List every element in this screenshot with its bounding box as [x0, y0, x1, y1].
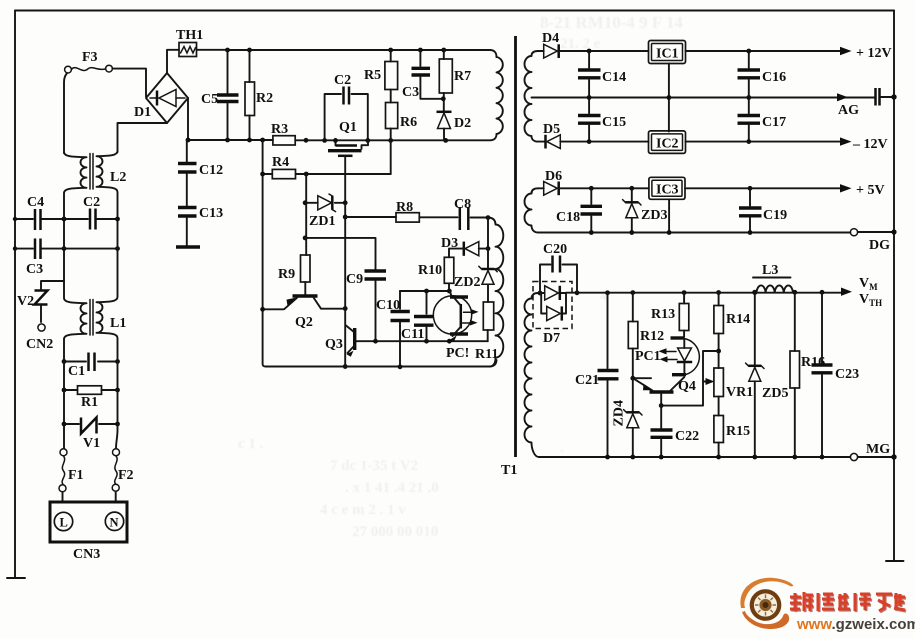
svg-text:VR1: VR1 [726, 385, 753, 400]
wire node ZD1-left column [303, 174, 308, 255]
svg-text:IC1: IC1 [656, 47, 679, 62]
resistor R13 [651, 293, 689, 337]
resistor R16 [790, 292, 825, 457]
transformer T1 core [514, 36, 517, 457]
gate coupling cap C2 loop [325, 73, 368, 140]
svg-text:IC3: IC3 [656, 183, 679, 198]
svg-text:C23: C23 [835, 367, 859, 382]
svg-text:F2: F2 [118, 468, 134, 483]
border frame: right earth line with end tick [886, 11, 904, 562]
resistor R3 (inline in rail) [271, 122, 295, 145]
watermark logo: red Chinese title (simulated glyphs) [791, 593, 906, 612]
resistor R1 row [62, 362, 120, 411]
svg-text:C15: C15 [602, 115, 626, 130]
common-mode choke L2 [64, 151, 126, 219]
zener ZD2 [454, 266, 497, 302]
rectifier diode D6 [538, 169, 649, 195]
bridge rectifier D1 [134, 73, 188, 123]
top B+ rail from TH1 to transformer primary [197, 48, 497, 57]
svg-text:.: . [560, 440, 564, 456]
border frame: top edge [15, 10, 894, 12]
secondary winding 2 (+5V) [525, 188, 539, 232]
svg-text:R13: R13 [651, 307, 675, 322]
svg-text:R15: R15 [726, 424, 750, 439]
capacitor C15 [578, 98, 626, 142]
svg-text:D7: D7 [543, 331, 560, 346]
svg-text:R6: R6 [400, 115, 417, 130]
snubber cap C3 [402, 50, 443, 100]
capacitor C10 [376, 291, 410, 367]
regulator IC3 [649, 177, 685, 199]
capacitor C21 [575, 293, 619, 457]
svg-text:C17: C17 [762, 115, 786, 130]
svg-text:C9: C9 [346, 272, 363, 287]
svg-text:27 000 00 010: 27 000 00 010 [352, 524, 438, 540]
zener ZD5 [746, 292, 789, 457]
svg-text:PC!: PC! [446, 346, 469, 361]
svg-text:F1: F1 [68, 468, 84, 483]
svg-text:C16: C16 [762, 70, 786, 85]
optocoupler PC1 LED side [635, 338, 699, 375]
svg-text:VTH: VTH [859, 292, 882, 308]
wire C9 branch [305, 238, 375, 269]
capacitor C2 (line filter) [83, 195, 100, 230]
capacitor C17 [738, 98, 787, 142]
svg-text:7 dc 1-35 t V2: 7 dc 1-35 t V2 [330, 458, 418, 474]
resistor R4 row [260, 155, 391, 179]
svg-text:TH1: TH1 [176, 28, 203, 43]
filter cap C13 [176, 206, 223, 247]
resistor R9 [278, 255, 310, 294]
resistor R2 [245, 50, 273, 140]
svg-text:. x 1 41 .4 21 .0: . x 1 41 .4 21 .0 [345, 480, 439, 496]
resistor R10 [418, 257, 454, 291]
svg-text:R7: R7 [454, 69, 471, 84]
snubber diode D2 [437, 112, 472, 141]
svg-text:c 1 .: c 1 . [238, 436, 264, 452]
svg-text:V1: V1 [83, 436, 100, 451]
wire IC1 to IC2 [668, 64, 670, 132]
svg-text:+ 12V: + 12V [856, 46, 892, 61]
svg-text:C3: C3 [26, 262, 43, 277]
wire IC3 to DG rail [668, 199, 670, 232]
svg-text:C1: C1 [68, 364, 85, 379]
+5V rail after IC3 [589, 183, 885, 198]
svg-text:C5: C5 [201, 92, 218, 107]
common-mode choke L1 [64, 249, 126, 362]
source column wire Q1 to bottom rail [343, 203, 348, 369]
svg-text:D6: D6 [545, 169, 562, 184]
svg-text:D1: D1 [134, 105, 151, 120]
svg-text:ZD3: ZD3 [641, 208, 667, 223]
zener ZD3 [623, 188, 668, 232]
svg-text:D5: D5 [543, 122, 560, 137]
svg-text:L1: L1 [110, 316, 126, 331]
fuse F2 [112, 424, 133, 491]
svg-text:Q4: Q4 [678, 379, 696, 394]
capacitor C3 (line filter) [26, 239, 43, 278]
diode D3 [441, 236, 488, 257]
svg-text:CN2: CN2 [26, 337, 53, 352]
svg-text:R9: R9 [278, 267, 295, 282]
svg-text:C2: C2 [334, 73, 351, 88]
faint bleed-through text from page back [238, 13, 683, 540]
transistor Q3 [325, 326, 488, 357]
svg-text:R3: R3 [271, 122, 288, 137]
transistor Q2 [260, 296, 347, 330]
svg-text:C10: C10 [376, 298, 400, 313]
svg-text:– 12V: – 12V [852, 137, 888, 152]
svg-text:R14: R14 [726, 312, 750, 327]
capacitor C23 [812, 292, 860, 457]
resistor R6 [386, 90, 418, 141]
capacitor C5 [201, 50, 239, 140]
X-cap C4 row wire [13, 217, 120, 222]
capacitor C4 [27, 195, 44, 230]
svg-text:C4: C4 [27, 195, 44, 210]
rectifier diode D4 [538, 31, 649, 58]
MG rail [539, 442, 897, 461]
svg-text:V2: V2 [17, 294, 34, 309]
DG rail [538, 229, 897, 253]
filter cap C12 [178, 140, 223, 206]
svg-text:C21: C21 [575, 373, 599, 388]
zener ZD1 [303, 194, 348, 229]
svg-text:L: L [60, 516, 68, 530]
svg-text:C3: C3 [402, 85, 419, 100]
capacitor C22 [651, 406, 700, 457]
svg-text:C20: C20 [543, 242, 567, 257]
capacitor C11 [401, 291, 434, 342]
svg-text:R12: R12 [640, 329, 664, 344]
svg-text:R11: R11 [475, 347, 498, 362]
rectifier diode D5 [538, 122, 649, 149]
svg-text:T1: T1 [501, 463, 517, 478]
capacitor C14 [578, 51, 626, 98]
svg-text:D3: D3 [441, 236, 458, 251]
snubber resistor R7 [439, 50, 471, 112]
feedback row R8 [345, 200, 457, 222]
svg-text:PC1: PC1 [635, 349, 661, 364]
svg-text:+ 5V: + 5V [856, 183, 885, 198]
svg-text:IC2: IC2 [656, 137, 679, 152]
wire F3 left down to choke L2 [64, 73, 67, 153]
svg-text:ZD1: ZD1 [309, 214, 335, 229]
capacitor C20 loop [540, 242, 577, 293]
svg-text:R5: R5 [364, 68, 381, 83]
resistor R14 [714, 293, 750, 369]
svg-text:8-21 RM10-4 9 F 14: 8-21 RM10-4 9 F 14 [540, 13, 683, 32]
svg-text:C13: C13 [199, 206, 223, 221]
resistor R15 [714, 397, 750, 458]
wire D1 right corner down to DC mid rail [187, 98, 189, 140]
+12V rail after IC1 [587, 46, 892, 61]
capacitor C18 [556, 188, 602, 232]
capacitor C1 row [62, 353, 120, 380]
control ground bottom rail [266, 360, 497, 369]
svg-text:C19: C19 [763, 208, 787, 223]
fuse F3 [65, 50, 113, 73]
svg-text:R10: R10 [418, 263, 442, 278]
svg-text:R2: R2 [256, 91, 273, 106]
svg-text:C8: C8 [454, 197, 471, 212]
zener ZD4 [612, 378, 643, 457]
transistor Q4 [630, 376, 695, 408]
svg-text:C14: C14 [602, 70, 626, 85]
svg-text:C18: C18 [556, 210, 580, 225]
svg-text:Q3: Q3 [325, 337, 343, 352]
output labels VM and VTH [859, 276, 882, 308]
svg-text:AG: AG [838, 103, 859, 118]
svg-text:C11: C11 [401, 327, 424, 342]
svg-text:R1: R1 [81, 395, 98, 410]
optocoupler PC1 photo-transistor side [400, 289, 479, 361]
-12V rail after IC2 [587, 137, 888, 152]
feedback winding of T1 [488, 218, 503, 367]
varistor V2 [17, 284, 48, 322]
svg-text:R8: R8 [396, 200, 413, 215]
svg-text:4 c e m 2 . 1 v: 4 c e m 2 . 1 v [320, 502, 406, 518]
transformer T1 primary winding [497, 57, 503, 134]
terminal CN2 [26, 324, 53, 352]
svg-text:R4: R4 [272, 155, 289, 170]
svg-text:www.gzweix.com: www.gzweix.com [796, 616, 915, 633]
capacitor C16 [738, 51, 787, 98]
svg-text:VM: VM [859, 276, 878, 292]
inductor L3 [753, 263, 793, 292]
dual rectifier diode D7 [533, 282, 572, 347]
svg-text:D4: D4 [542, 31, 559, 46]
svg-text:MG: MG [866, 442, 890, 457]
border frame: left earth line with end tick [7, 11, 25, 579]
wire R6 bottom to R4 row [390, 140, 392, 174]
varistor V2 branch wire [41, 281, 64, 284]
resistor R12 [628, 293, 664, 379]
secondary winding 1 (+12/-12) [525, 51, 539, 142]
svg-text:D2: D2 [454, 116, 471, 131]
DC mid rail [186, 134, 497, 143]
svg-text:ZD4: ZD4 [612, 400, 627, 426]
zener column from C8 node [486, 218, 491, 269]
svg-text:L2: L2 [110, 170, 126, 185]
svg-text:ZD2: ZD2 [454, 275, 480, 290]
svg-text:DG: DG [869, 238, 890, 253]
mains connector CN3 [50, 492, 127, 563]
capacitor C19 [739, 188, 787, 232]
svg-text:F3: F3 [82, 50, 98, 65]
svg-text:N: N [110, 516, 119, 530]
wire D1 top to thermistor TH1 [167, 50, 179, 73]
svg-text:Q2: Q2 [295, 315, 313, 330]
svg-text:21. 2 e: 21. 2 e [560, 36, 601, 52]
thermistor TH1 [176, 28, 203, 57]
wire D1 bottom to L2 right lead [118, 123, 168, 152]
svg-text:L3: L3 [762, 263, 778, 278]
regulator IC1 [649, 41, 686, 64]
regulator IC2 [649, 131, 686, 154]
svg-text:Q1: Q1 [339, 120, 357, 135]
capacitor C8 [454, 197, 490, 230]
Y-cap C3 row wire [13, 246, 120, 251]
MOSFET Q1 [328, 120, 368, 203]
VM output row [538, 288, 852, 296]
resistor R11 [475, 302, 498, 362]
resistor R5 [364, 50, 398, 90]
wire left column between rows [64, 219, 118, 281]
fuse F1 [59, 424, 84, 492]
capacitor C9 [346, 271, 386, 341]
watermark logo: eye iris [750, 589, 782, 621]
secondary winding 3 (motor output) [525, 293, 540, 457]
gate feed wire down from rail junction [263, 140, 266, 367]
svg-text:CN3: CN3 [73, 547, 100, 562]
svg-text:C22: C22 [675, 429, 699, 444]
potentiometer VR1 with wiper wire [661, 351, 753, 406]
AG rail [532, 93, 895, 118]
svg-text:C2: C2 [83, 195, 100, 210]
svg-text:ZD5: ZD5 [762, 386, 788, 401]
AG series capacitor [876, 88, 897, 106]
wire F3 right to bridge D1 left corner [112, 69, 146, 97]
watermark logo: eye swoosh upper [740, 578, 793, 629]
svg-text:C12: C12 [199, 163, 223, 178]
spark gap V1 row [62, 390, 120, 451]
